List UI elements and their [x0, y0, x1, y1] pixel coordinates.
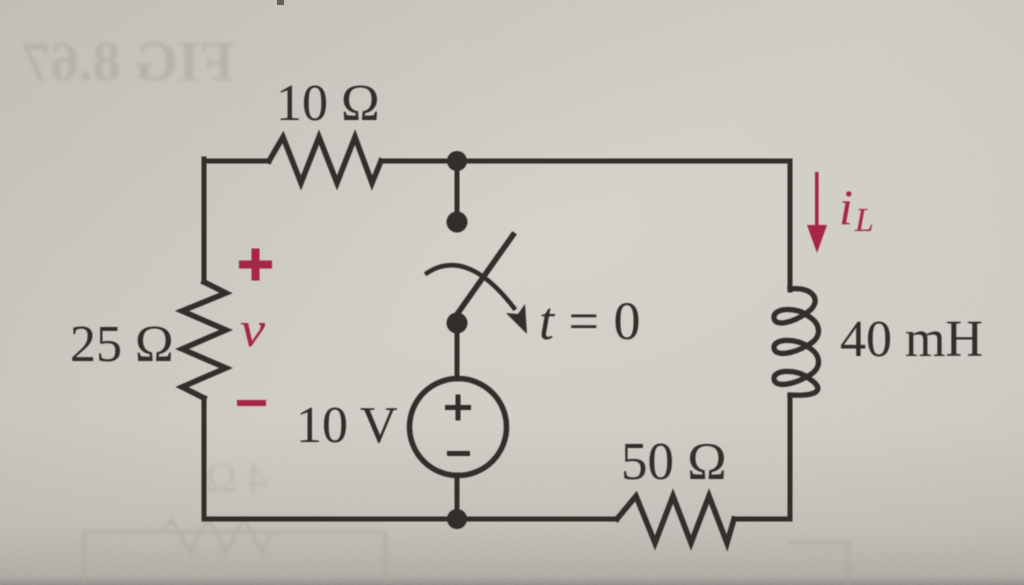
resistor R 50 ohm	[617, 496, 734, 543]
ghost wire horizontal right	[789, 540, 848, 544]
wire right side upper	[788, 161, 793, 290]
current arrow iL head	[807, 225, 827, 253]
node dot top junction	[447, 151, 467, 171]
ghost wire vertical mid	[383, 532, 387, 585]
inductor L 40 mH coil	[774, 289, 819, 396]
svg-text:10 Ω: 10 Ω	[276, 75, 380, 132]
svg-text:40 mH: 40 mH	[840, 311, 983, 368]
source minus sign	[447, 451, 470, 456]
svg-text:v: v	[240, 301, 265, 357]
resistor R 10 ohm	[269, 137, 381, 183]
wire bottom-left segment	[204, 517, 617, 522]
polarity minus red	[237, 400, 266, 406]
ghost wire horizontal left	[84, 530, 385, 534]
wire switch to source	[455, 323, 460, 379]
node dot bottom junction	[447, 509, 467, 529]
photo speck top edge	[277, 0, 284, 5]
node dot switch lower	[447, 313, 468, 334]
switch blade	[453, 235, 513, 320]
ghost resistor zigzag	[160, 518, 272, 552]
wire right side lower	[788, 395, 793, 519]
svg-text:25 Ω: 25 Ω	[70, 316, 174, 373]
wire top-left segment	[204, 159, 269, 164]
wire left side upper	[202, 159, 207, 282]
voltage source circle 10 V	[410, 379, 507, 476]
wire source to bottom	[455, 475, 460, 519]
switch arrowhead	[506, 304, 527, 334]
switch arc	[427, 265, 514, 308]
polarity plus red	[239, 249, 272, 281]
svg-text:FIG 8.67: FIG 8.67	[22, 31, 234, 93]
svg-text:4 Ω: 4 Ω	[205, 456, 268, 502]
wire left side lower	[202, 398, 207, 519]
wire switch stub from top	[455, 161, 460, 215]
ghost wire vertical right	[846, 540, 850, 585]
svg-text:50 Ω: 50 Ω	[621, 433, 727, 491]
main schematic (soft photo ink)	[70, 75, 983, 543]
ghost wire vertical left	[82, 532, 86, 585]
resistor R 25 ohm	[182, 282, 226, 398]
svg-text:10 V: 10 V	[296, 397, 398, 454]
source plus sign	[445, 395, 471, 421]
node dot switch upper	[447, 212, 468, 233]
wire top-right segment	[381, 159, 790, 164]
wire bottom-right segment	[734, 517, 790, 522]
ghost bleed-through from reverse page	[22, 31, 848, 585]
current arrow iL shaft	[815, 172, 819, 234]
svg-text:t = 0: t = 0	[539, 291, 641, 351]
